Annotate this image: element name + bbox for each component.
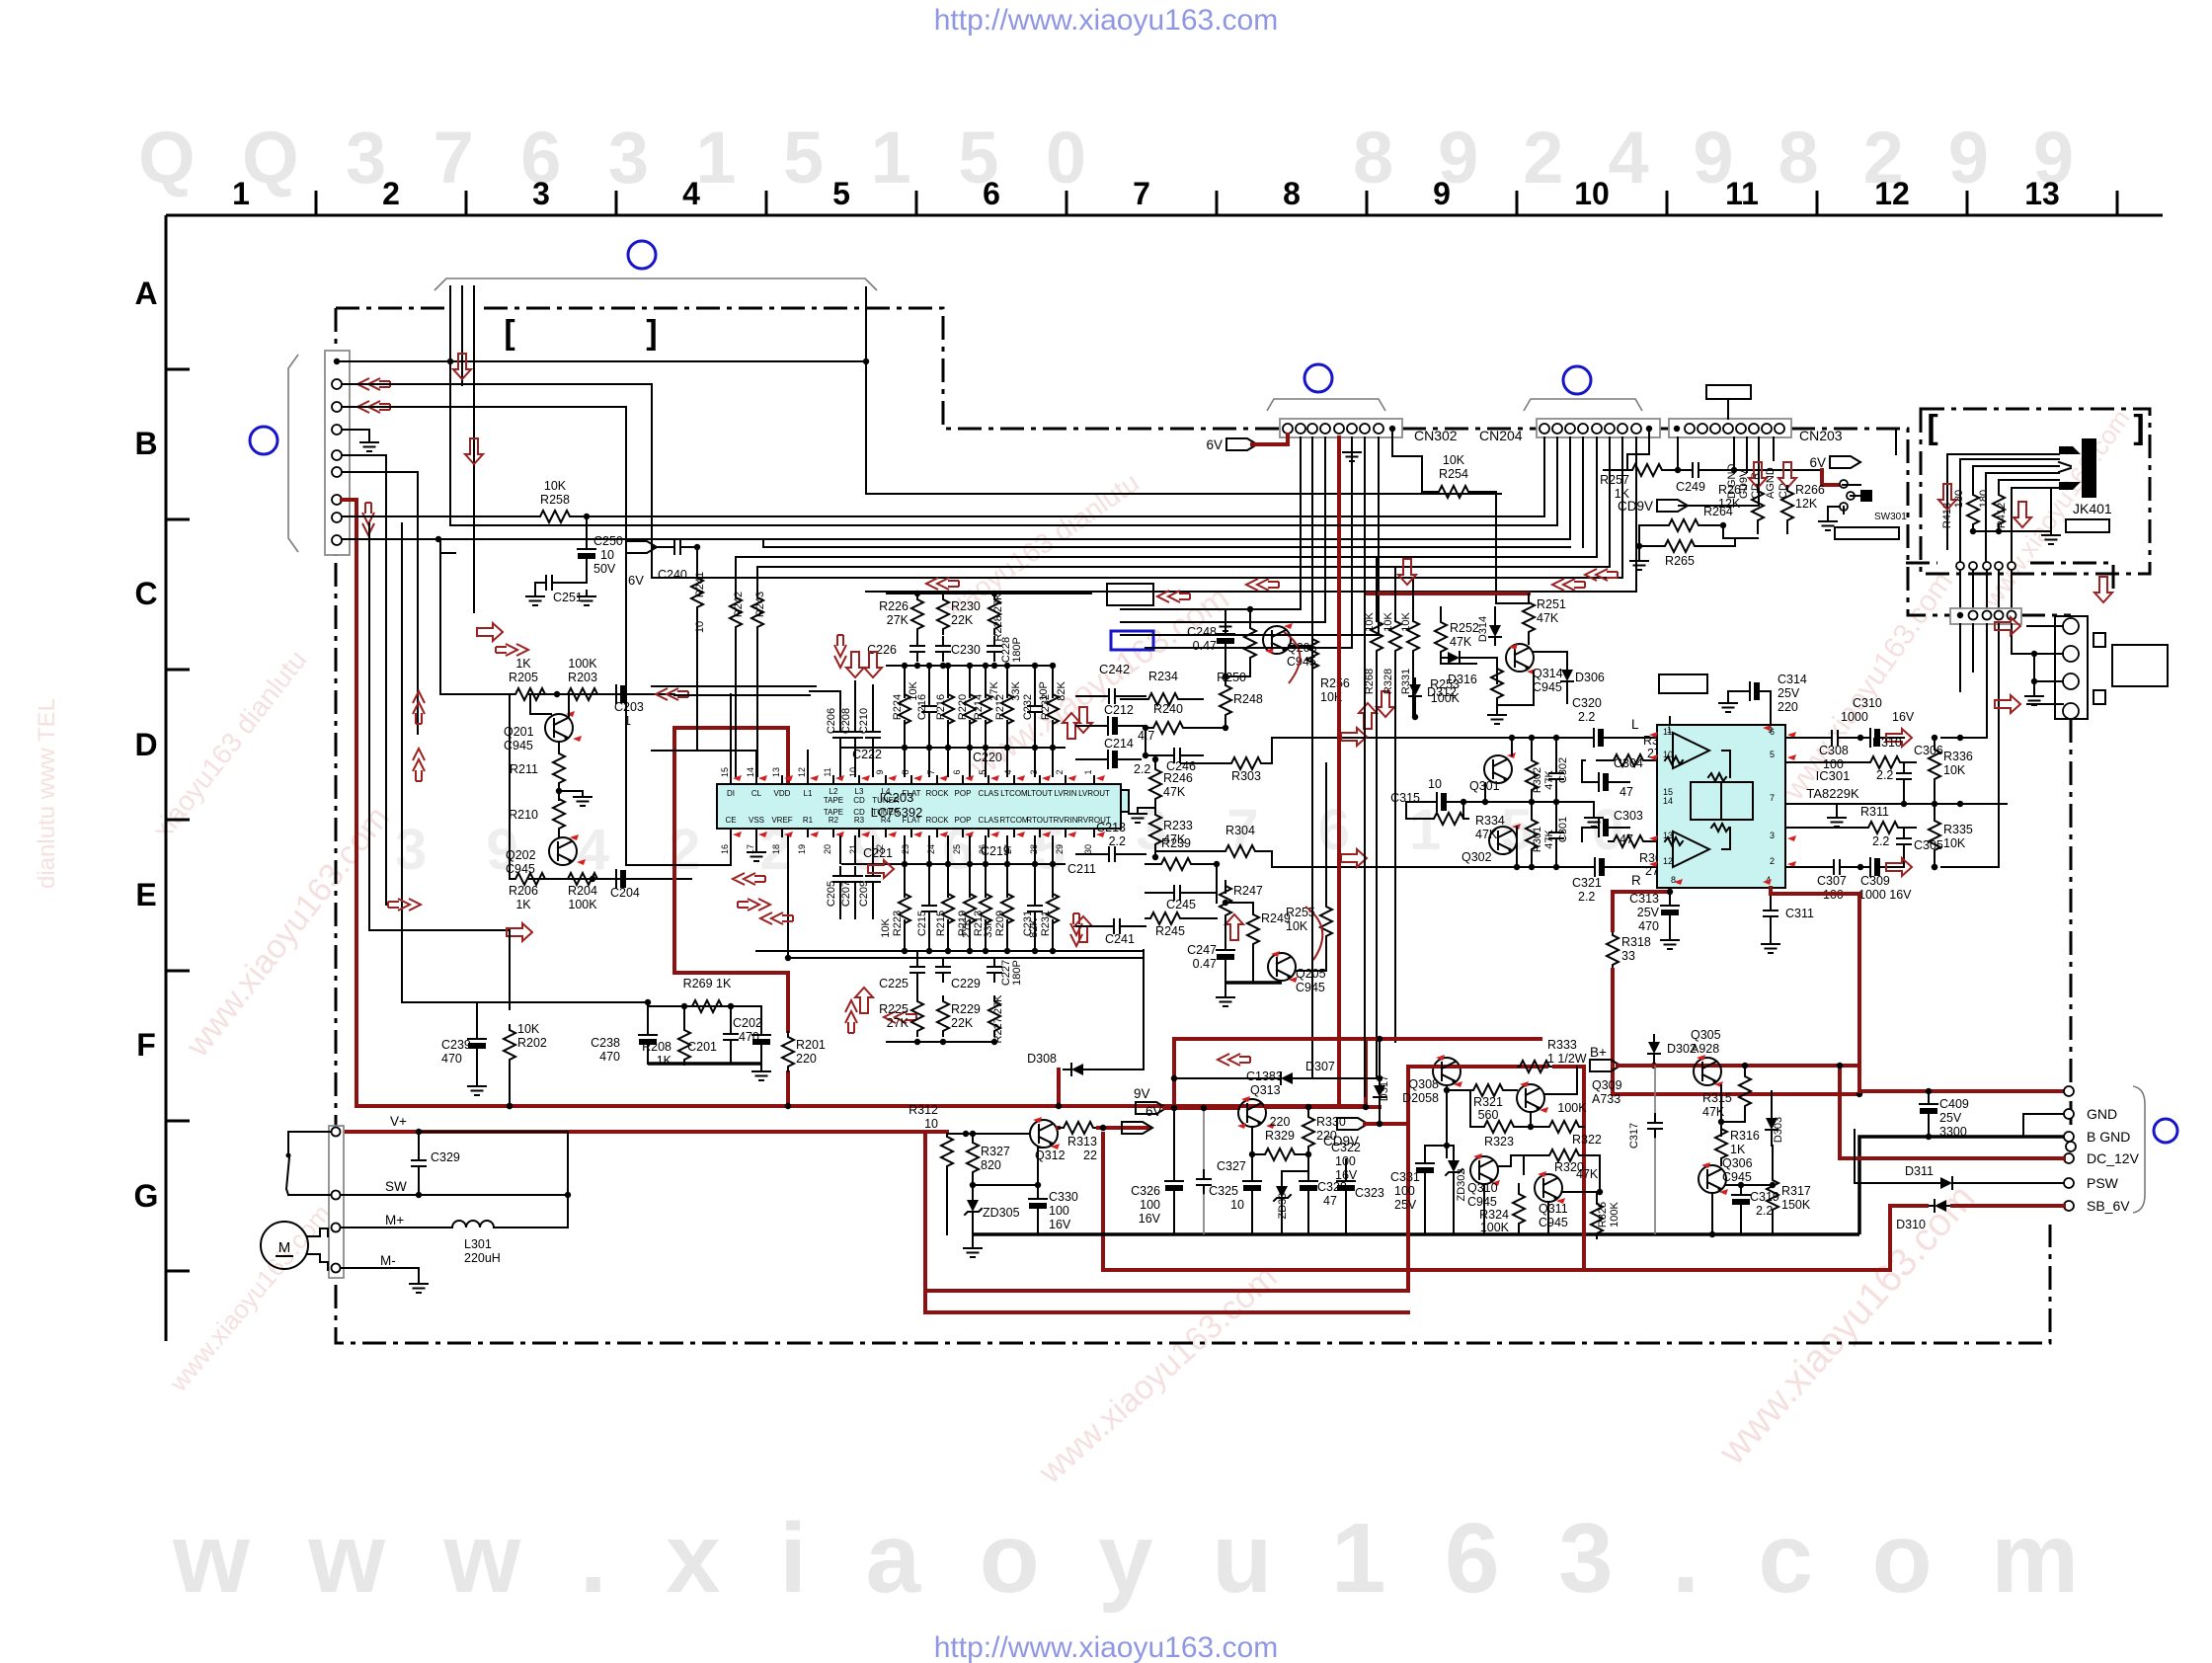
svg-text:R321: R321 — [1473, 1095, 1503, 1109]
svg-text:R223: R223 — [892, 911, 904, 936]
capacitor C314 220 25V — [1764, 691, 1771, 725]
capacitor C208 — [854, 747, 856, 776]
svg-text:13: 13 — [771, 767, 781, 777]
svg-text:R310: R310 — [1872, 736, 1902, 750]
wire red V+ rail — [346, 1132, 1408, 1291]
svg-text:DI: DI — [727, 789, 735, 798]
signal arrow — [1074, 707, 1092, 733]
svg-text:25: 25 — [952, 844, 962, 854]
resistor R304 — [1221, 845, 1260, 857]
motor M — [261, 1222, 308, 1269]
diode D307 — [1273, 1072, 1299, 1084]
ground — [574, 791, 592, 806]
svg-text:33K: 33K — [1010, 681, 1022, 701]
svg-text:C213: C213 — [1096, 821, 1126, 834]
svg-text:19: 19 — [797, 844, 807, 854]
wire — [973, 1184, 1038, 1186]
svg-text:220: 220 — [796, 1052, 817, 1066]
svg-text:7: 7 — [1133, 176, 1150, 211]
svg-text:22K: 22K — [951, 613, 974, 627]
capacitor C232 — [1028, 697, 1042, 721]
svg-text:C219: C219 — [981, 844, 1010, 858]
wire 6V red riser — [1337, 437, 1341, 1106]
signal arrow — [846, 652, 864, 677]
diode D312 — [1409, 678, 1421, 704]
wire — [810, 690, 840, 692]
svg-text:R311: R311 — [1860, 805, 1889, 819]
svg-text:100: 100 — [1140, 1198, 1160, 1212]
ground — [1351, 437, 1353, 444]
svg-text:[: [ — [504, 314, 514, 352]
svg-text:R224: R224 — [892, 694, 904, 720]
capacitor C325 10 — [1251, 1154, 1253, 1175]
svg-text:C308: C308 — [1819, 744, 1849, 757]
svg-text:R2: R2 — [829, 816, 839, 825]
wire red 6V drop — [1101, 1134, 1105, 1270]
resistor R313 22 — [1059, 1122, 1098, 1134]
wire — [449, 306, 451, 361]
resistor R241 10 — [696, 547, 698, 573]
wire red 6V rail — [1366, 592, 1529, 595]
wire — [1677, 437, 1679, 470]
svg-text:C202: C202 — [733, 1016, 762, 1030]
wire red — [1266, 1105, 1380, 1109]
transistor Q201 C945 — [545, 714, 573, 742]
wire pin5 — [342, 455, 386, 905]
board label rectangle — [2066, 519, 2109, 532]
svg-text:VSS: VSS — [749, 816, 764, 825]
svg-text:R336: R336 — [1943, 750, 1973, 763]
wire red DC_12V — [1840, 1156, 2064, 1160]
dash-dot stubs — [1906, 562, 1937, 565]
resistor R229 22K — [937, 996, 949, 1036]
resistor R334 47K — [1429, 813, 1468, 825]
svg-text:1K: 1K — [515, 898, 531, 911]
ground — [1154, 804, 1156, 808]
svg-text:D308: D308 — [1027, 1052, 1057, 1066]
transistor Q202 C945 — [549, 837, 577, 865]
ground — [1661, 934, 1679, 949]
svg-text:R: R — [1631, 873, 1641, 888]
wire — [1771, 1091, 1773, 1096]
signal arrow — [926, 578, 959, 590]
signal arrow — [2094, 577, 2112, 602]
wire red — [1172, 1039, 1176, 1108]
svg-text:C211: C211 — [1067, 862, 1096, 876]
svg-text:R329: R329 — [1265, 1129, 1295, 1143]
svg-text:C945: C945 — [1722, 1170, 1752, 1184]
svg-text:47K: 47K — [1475, 828, 1498, 841]
signal arrow — [1157, 591, 1190, 602]
svg-text:D311: D311 — [1905, 1164, 1934, 1178]
signal arrow — [413, 749, 425, 781]
wire — [1037, 1217, 1039, 1234]
svg-text:12: 12 — [1663, 856, 1673, 866]
transistor Q309 A733 — [1517, 1084, 1544, 1112]
wire — [1414, 704, 1416, 717]
svg-text:2: 2 — [382, 176, 400, 211]
svg-text:CD: CD — [853, 796, 865, 805]
signal arrow — [1246, 579, 1279, 591]
svg-text:]: ] — [646, 314, 657, 352]
ground — [752, 1066, 770, 1080]
signal arrow — [738, 899, 770, 911]
svg-text:9: 9 — [1433, 176, 1451, 211]
svg-text:C331: C331 — [1390, 1170, 1420, 1184]
svg-text:TUNER: TUNER — [872, 796, 900, 805]
resistor R323 — [1479, 1121, 1519, 1133]
svg-text:30: 30 — [1083, 844, 1093, 854]
resistor R329 220 — [1260, 1148, 1300, 1160]
svg-text:C207: C207 — [840, 881, 852, 907]
wire red — [1098, 1126, 1149, 1130]
svg-text:R1: R1 — [803, 816, 814, 825]
resistor R336 10K — [1929, 745, 1940, 784]
svg-text:100K: 100K — [1609, 1201, 1620, 1227]
svg-text:11: 11 — [823, 767, 832, 776]
marker circle A — [628, 241, 656, 269]
wire — [1224, 720, 1226, 728]
ground — [410, 1278, 428, 1293]
svg-text:w w w . x i a o y u 1 6 3 . c: w w w . x i a o y u 1 6 3 . c o m — [172, 1503, 2079, 1614]
ground — [1630, 555, 1648, 570]
svg-text:C323: C323 — [1355, 1186, 1384, 1200]
svg-text:C: C — [134, 576, 157, 611]
signal arrow — [1995, 617, 2020, 635]
signal arrow — [357, 378, 390, 390]
capacitor C307 100 — [1825, 860, 1849, 874]
wire — [683, 1006, 685, 1025]
svg-text:C330: C330 — [1049, 1190, 1078, 1204]
svg-text:E: E — [135, 877, 156, 912]
svg-text:C301: C301 — [1557, 817, 1569, 842]
svg-text:C945: C945 — [504, 739, 533, 752]
resistor R212 — [1001, 689, 1013, 729]
svg-text:ROCK: ROCK — [925, 789, 949, 798]
svg-text:L4: L4 — [882, 787, 891, 796]
svg-text:R209: R209 — [994, 911, 1006, 936]
svg-text:R228 27K: R228 27K — [992, 593, 1004, 642]
resistor R325 100K — [1591, 1199, 1603, 1238]
ground — [748, 846, 765, 861]
wire — [1446, 1085, 1448, 1157]
ground — [1719, 697, 1737, 712]
svg-text:R322: R322 — [1572, 1133, 1602, 1147]
resistor R224 — [899, 689, 910, 729]
signal arrow — [1886, 729, 1912, 747]
svg-text:POP: POP — [955, 816, 972, 825]
svg-text:R264: R264 — [1703, 505, 1733, 518]
connector CN301 motor — [329, 1126, 344, 1278]
svg-text:L1: L1 — [804, 789, 813, 798]
wire red — [1408, 1065, 1433, 1069]
ground — [1828, 812, 1846, 827]
svg-text:R203: R203 — [568, 671, 597, 684]
svg-text:C204: C204 — [610, 886, 640, 900]
resistor R327 820 — [967, 1138, 979, 1177]
wire — [947, 1133, 1030, 1135]
svg-text:7: 7 — [1770, 793, 1775, 803]
jack connector — [2055, 616, 2088, 719]
jack JK401 contacts — [2059, 446, 2081, 454]
wire red — [1859, 1066, 2064, 1091]
capacitor C242 — [1100, 689, 1124, 703]
resistor R255 10K — [1320, 902, 1332, 941]
capacitor C201 — [730, 1006, 732, 1025]
svg-text:LTOUT: LTOUT — [1027, 789, 1053, 798]
svg-text:33K: 33K — [983, 918, 994, 938]
capacitor C241 — [1105, 919, 1129, 933]
resistor R242 — [735, 557, 737, 593]
svg-text:2.2: 2.2 — [1578, 710, 1595, 724]
svg-text:D2058: D2058 — [1402, 1091, 1439, 1105]
capacitor C306 — [1897, 764, 1911, 788]
signal arrow — [453, 354, 471, 379]
resistor R258 10K — [535, 511, 575, 522]
resistor R215 — [942, 889, 954, 928]
wire — [1089, 1069, 1144, 1070]
connector CN201 bracket — [288, 355, 298, 552]
resistor R318 33 — [1607, 930, 1619, 970]
svg-text:10: 10 — [848, 767, 858, 777]
resistor R333 1 1/2W — [1515, 1061, 1554, 1072]
svg-text:]: ] — [2133, 409, 2144, 446]
svg-text:25V: 25V — [1939, 1111, 1962, 1125]
resistor R243 — [756, 567, 758, 593]
svg-text:AGND: AGND — [1765, 467, 1777, 499]
wire CN302 pin drops — [1145, 437, 1301, 609]
svg-text:R229: R229 — [951, 1002, 981, 1016]
svg-text:470: 470 — [1638, 919, 1659, 933]
svg-text:[: [ — [1927, 409, 1937, 446]
resistor R233 47K — [1149, 810, 1161, 849]
ground — [1217, 616, 1234, 631]
wire — [558, 788, 560, 800]
svg-text:LTCOM: LTCOM — [1000, 789, 1028, 798]
svg-text:100K: 100K — [568, 898, 597, 911]
board label rectangle — [1835, 527, 1899, 539]
svg-text:27K: 27K — [887, 613, 909, 627]
svg-text:PSW: PSW — [2087, 1175, 2119, 1191]
wire — [473, 306, 475, 612]
svg-text:CE: CE — [725, 816, 736, 825]
svg-text:100: 100 — [1394, 1184, 1415, 1198]
ground — [578, 591, 595, 605]
resistor R311 2.2 — [1863, 822, 1903, 833]
svg-text:C221: C221 — [863, 846, 893, 860]
svg-text:C245: C245 — [1166, 898, 1196, 911]
svg-text:1: 1 — [1083, 769, 1093, 774]
svg-text:47: 47 — [1619, 785, 1633, 799]
svg-text:B+: B+ — [1590, 1045, 1607, 1060]
wire red — [1822, 470, 1839, 485]
diode D302 — [1648, 1036, 1660, 1062]
svg-text:6V: 6V — [1206, 437, 1223, 452]
ground — [1496, 703, 1498, 707]
svg-text:SB_6V: SB_6V — [2087, 1198, 2130, 1214]
wire — [1224, 652, 1226, 676]
wire pin1 — [1669, 717, 1671, 725]
svg-text:R248: R248 — [1233, 692, 1263, 706]
wire red stub — [925, 1130, 947, 1134]
svg-text:Q205: Q205 — [1296, 967, 1326, 981]
wire pin2 — [342, 383, 387, 385]
signal arrow — [1074, 916, 1092, 942]
wire red CD9V — [1365, 1122, 1408, 1126]
resistor R202 10K — [504, 1025, 515, 1065]
wire — [1544, 1093, 1577, 1095]
wire — [1394, 1041, 1396, 1043]
svg-text:R239: R239 — [1161, 836, 1191, 850]
svg-text:12K: 12K — [1795, 497, 1818, 511]
marker circle E — [2154, 1119, 2177, 1143]
leaf switch — [287, 1132, 289, 1153]
svg-text:1: 1 — [1667, 725, 1672, 735]
PCB outline dash-dot border — [336, 307, 446, 310]
svg-text:Q305: Q305 — [1691, 1028, 1721, 1042]
svg-text:100: 100 — [1823, 757, 1844, 771]
capacitor C308 100 — [1823, 731, 1847, 745]
wire horizontal mid links — [1121, 608, 1145, 610]
svg-text:R231: R231 — [1040, 911, 1052, 936]
svg-text:RTCOM: RTCOM — [999, 816, 1029, 825]
wire thick — [1225, 981, 1282, 985]
svg-text:R266: R266 — [1795, 483, 1825, 497]
svg-text:ZD304: ZD304 — [1277, 1186, 1289, 1219]
capacitor C330 100 16V — [1037, 1148, 1039, 1193]
signal arrow — [496, 644, 528, 656]
wire — [1523, 1155, 1525, 1174]
svg-text:470: 470 — [739, 1030, 759, 1044]
svg-text:21: 21 — [848, 844, 858, 854]
svg-text:LVRIN: LVRIN — [1055, 789, 1077, 798]
svg-text:SW301: SW301 — [1874, 512, 1907, 522]
svg-text:V+: V+ — [390, 1114, 407, 1129]
signal arrow — [1585, 569, 1618, 581]
signal arrow — [1341, 728, 1367, 746]
svg-text:2.2: 2.2 — [1876, 768, 1893, 782]
svg-text:C206: C206 — [826, 708, 837, 734]
signal arrow — [1341, 849, 1367, 867]
svg-text:9: 9 — [875, 769, 885, 774]
svg-text:C210: C210 — [858, 708, 870, 734]
capacitor C247 0.47 — [1224, 920, 1226, 944]
svg-text:10K: 10K — [880, 918, 892, 938]
resistor R240 — [1148, 722, 1188, 734]
wire — [652, 685, 816, 687]
wire — [575, 515, 1544, 517]
svg-text:R331: R331 — [1400, 669, 1412, 694]
wire — [1251, 1127, 1253, 1154]
wire — [509, 930, 511, 1009]
wire — [1511, 738, 1513, 755]
svg-text:47K: 47K — [1163, 785, 1186, 799]
capacitor C231 — [1028, 897, 1042, 920]
transistor Q308 D2058 — [1433, 1058, 1461, 1085]
svg-text:R233: R233 — [1163, 819, 1193, 832]
svg-text:33: 33 — [1621, 949, 1635, 963]
svg-text:R256: R256 — [1320, 676, 1350, 690]
svg-text:24: 24 — [926, 844, 936, 854]
resistor R310 2.2 — [1865, 756, 1905, 768]
wire bundle to connectors — [736, 556, 1597, 558]
capacitor C245 — [1165, 886, 1189, 900]
wire red aux rail — [1406, 1289, 1410, 1293]
svg-text:M+: M+ — [385, 1213, 404, 1227]
svg-text:http://www.xiaoyu163.com: http://www.xiaoyu163.com — [934, 4, 1279, 37]
capacitor C323 — [1345, 1159, 1347, 1175]
svg-text:C215: C215 — [916, 911, 928, 936]
supply arrow 9V — [1136, 1102, 1166, 1114]
capacitor C321 2.2 — [1586, 858, 1613, 876]
wire thick — [648, 1062, 761, 1066]
signal arrow — [507, 923, 532, 941]
wire CE pin16 — [626, 836, 731, 865]
ground — [1217, 991, 1234, 1006]
svg-text:A733: A733 — [1592, 1092, 1620, 1106]
svg-text:27K: 27K — [887, 1016, 909, 1030]
svg-text:29: 29 — [1055, 844, 1065, 854]
svg-text:SW: SW — [385, 1179, 407, 1194]
svg-text:ZD305: ZD305 — [983, 1206, 1020, 1220]
wire red bottom — [356, 1104, 1366, 1108]
terminal row circles — [2064, 1086, 2074, 1096]
op-amp IC301 TA8229K power amplifier — [1657, 725, 1785, 888]
resistor R315 47K — [1739, 1071, 1751, 1111]
capacitor C240 — [652, 546, 666, 548]
wire red 6V standby — [925, 1310, 1408, 1314]
signal arrow — [388, 899, 421, 911]
wire red — [1406, 1124, 1410, 1291]
signal arrow — [1225, 914, 1243, 940]
resistor R309 270 — [1609, 835, 1648, 847]
svg-text:C241: C241 — [1105, 932, 1135, 946]
svg-text:Q308: Q308 — [1408, 1077, 1439, 1091]
svg-text:25V: 25V — [1637, 906, 1660, 919]
svg-text:10K: 10K — [1400, 612, 1412, 632]
wire CL pin14 — [652, 751, 756, 776]
wire bus above IC203 — [887, 665, 1055, 667]
wire — [1941, 632, 1999, 867]
svg-text:8 9 2 4 9 8 2 9 9: 8 9 2 4 9 8 2 9 9 — [1353, 117, 2074, 198]
svg-text:L301: L301 — [464, 1237, 492, 1251]
svg-text:10: 10 — [1663, 750, 1673, 759]
svg-text:2.2: 2.2 — [1872, 834, 1889, 848]
resistor R245 — [1145, 912, 1185, 924]
capacitor C216 — [922, 697, 936, 721]
svg-text:14: 14 — [1663, 796, 1673, 806]
resistor R214 — [980, 689, 991, 729]
wire — [1425, 1145, 1454, 1147]
wire PSW — [1960, 1182, 2064, 1184]
svg-text:6: 6 — [983, 176, 1000, 211]
wire — [2034, 654, 2063, 681]
svg-text:C249: C249 — [1676, 480, 1705, 494]
svg-text:R234: R234 — [1148, 670, 1178, 683]
ground VSS pin17 — [755, 836, 757, 844]
signal arrow — [760, 912, 793, 924]
wire red SB_6V — [1952, 1204, 2064, 1208]
svg-text:7: 7 — [926, 769, 936, 774]
wire pin3 — [342, 406, 387, 408]
svg-text:L3: L3 — [855, 787, 864, 796]
ground — [1343, 446, 1361, 461]
resistor R335 10K — [1929, 816, 1940, 855]
wire — [1364, 514, 1366, 1096]
wire power ground bus — [973, 1232, 1859, 1236]
svg-text:82K: 82K — [1056, 681, 1067, 701]
svg-text:C945: C945 — [1467, 1195, 1497, 1209]
